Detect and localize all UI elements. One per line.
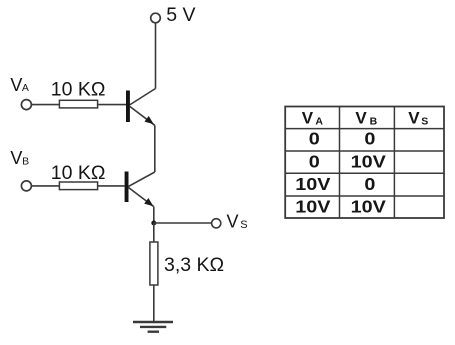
svg-text:3,3 KΩ: 3,3 KΩ <box>164 254 224 276</box>
svg-text:10 KΩ: 10 KΩ <box>51 78 106 100</box>
svg-text:10V: 10V <box>295 175 331 195</box>
svg-text:V: V <box>302 109 314 128</box>
svg-text:V: V <box>10 75 22 95</box>
svg-text:V: V <box>355 109 367 128</box>
svg-text:A: A <box>22 82 29 94</box>
svg-text:0: 0 <box>309 152 320 172</box>
svg-text:0: 0 <box>364 129 375 149</box>
svg-text:5 V: 5 V <box>166 4 195 26</box>
svg-text:S: S <box>421 115 428 127</box>
svg-text:A: A <box>315 115 323 127</box>
svg-text:V: V <box>408 109 420 128</box>
svg-text:0: 0 <box>309 129 320 149</box>
svg-text:0: 0 <box>364 175 375 195</box>
svg-text:V: V <box>10 148 22 168</box>
svg-text:10V: 10V <box>351 152 387 172</box>
svg-text:10V: 10V <box>295 197 331 217</box>
svg-text:S: S <box>240 219 247 231</box>
svg-text:B: B <box>22 156 29 168</box>
svg-text:10V: 10V <box>351 197 387 217</box>
svg-text:10 KΩ: 10 KΩ <box>51 162 106 184</box>
svg-text:V: V <box>227 211 239 231</box>
svg-text:B: B <box>370 115 378 127</box>
